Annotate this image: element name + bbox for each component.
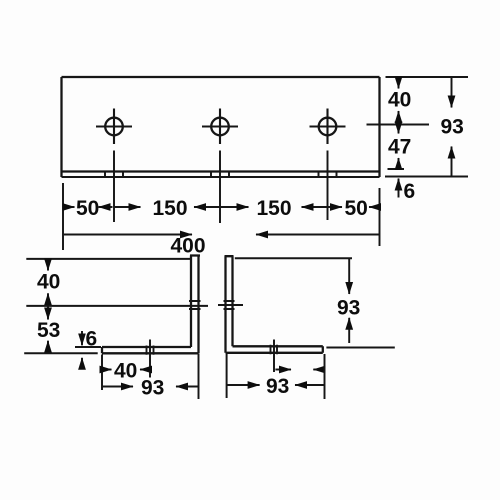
right side view horizontal flange	[226, 346, 323, 353]
dimension 53 (left side view) arrows	[47, 306, 49, 353]
dimension 93 vertical (right side view) label	[337, 297, 360, 320]
extension line top right (y=77)	[386, 76, 469, 78]
extension stub for 6 thickness (y=169.5)	[388, 168, 405, 170]
hole H1 centerline extension	[113, 151, 115, 223]
right side view extension line right (y=347.5)	[326, 347, 394, 349]
svg-text:6: 6	[404, 180, 416, 203]
svg-text:6: 6	[86, 328, 98, 351]
bracket front view face outline	[62, 77, 380, 177]
left side view vertical leg	[190, 256, 200, 354]
dimension 93 flange (left side view) arrows	[102, 386, 199, 388]
hole H1 crosshair	[96, 109, 132, 145]
svg-text:93: 93	[266, 375, 289, 398]
hole H1 edge ticks on edge strip	[105, 171, 123, 178]
dimension 40 flange (left side view) label	[114, 360, 137, 383]
svg-text:93: 93	[141, 377, 164, 400]
hole H1 circle	[105, 118, 123, 136]
right side view extension line top (y=258.2)	[235, 257, 352, 259]
dimension 400 arrows	[64, 234, 380, 236]
svg-text:40: 40	[114, 360, 137, 383]
left side view extension line top (y=259)	[26, 258, 190, 260]
dimension 40 (right stack) label	[388, 89, 411, 112]
dimension 50 left label	[76, 197, 99, 220]
right side view vertical leg	[225, 256, 234, 353]
hole H3 centerline extension	[327, 151, 329, 221]
hole H2 edge ticks on edge strip	[211, 171, 229, 178]
svg-text:150: 150	[257, 197, 292, 220]
extension stub for 6 (left side view)	[75, 346, 101, 348]
dimension 50 right label	[345, 197, 368, 220]
dimension 6 (right stack) arrow	[398, 179, 400, 198]
left side view hole lines on leg	[189, 301, 201, 309]
extension line leg left edge down (right side view)	[226, 354, 228, 398]
right side view hole centerline on flange	[273, 340, 275, 373]
hole H3 circle	[319, 118, 337, 136]
left side view hole ticks on flange	[147, 346, 154, 355]
left side view horizontal flange	[102, 347, 199, 353]
dimension 400 label	[171, 235, 206, 258]
hole H2 centerline extension	[219, 151, 221, 224]
dimension 40 (left side view) label	[37, 271, 60, 294]
extension line bottom right (y=176.5)	[385, 176, 468, 178]
bracket front view bottom flange edge strip	[62, 176, 380, 178]
left side view extension line hole center (y=306)	[26, 305, 208, 307]
dimension 93 (right overall) label	[441, 116, 464, 139]
dimension 93 flange (right side view) arrows	[227, 384, 325, 386]
right side view hole ticks on flange	[271, 345, 278, 355]
hole H3 edge ticks on edge strip	[319, 171, 337, 178]
svg-text:53: 53	[37, 319, 60, 342]
svg-text:40: 40	[388, 89, 411, 112]
dimension 150 first arrows	[114, 206, 220, 208]
dimension 47 (right stack) label	[388, 136, 411, 159]
dimension 40 (left side view) arrows	[47, 259, 49, 306]
dimension 93 flange (right side view) label	[266, 375, 289, 398]
extension line left end below bracket	[62, 183, 64, 250]
dimension 40 (right stack) arrows	[398, 77, 400, 125]
right side view hole center crossline (y=305)	[218, 304, 243, 306]
dimension 6 (right stack) label	[404, 180, 416, 203]
dimension 6 (left side view) label	[86, 328, 98, 351]
svg-text:400: 400	[171, 235, 206, 258]
dimension 40 flange (left side view) arrows	[102, 369, 150, 371]
dimension 6 (left side view) arrows	[81, 331, 83, 369]
extension line flange left end (left side view)	[101, 355, 103, 391]
dimension 50 left arrows	[63, 206, 113, 208]
extension line right end below bracket	[379, 188, 381, 246]
dimension 150 first label	[153, 197, 188, 220]
left side view extension line bottom (y=353.3)	[24, 352, 98, 354]
extension line flange right end down (right side view)	[324, 354, 326, 399]
dimension 93 flange (left side view) label	[141, 377, 164, 400]
dimension 150 second arrows	[220, 206, 329, 208]
svg-text:40: 40	[37, 271, 60, 294]
dimension 150 second label	[257, 197, 292, 220]
svg-text:47: 47	[388, 136, 411, 159]
dimension 53 (left side view) label	[37, 319, 60, 342]
right side view hole lines on leg	[224, 301, 235, 309]
svg-text:50: 50	[345, 197, 368, 220]
extension line hole centerline right (y=124.5)	[367, 124, 430, 126]
hole H2 crosshair	[202, 109, 238, 145]
dimension 93 vertical (right side view) arrows	[348, 258, 350, 343]
svg-text:93: 93	[441, 116, 464, 139]
svg-text:50: 50	[76, 197, 99, 220]
hole H3 crosshair	[310, 109, 346, 145]
dimension 47 (right stack) arrows	[398, 125, 400, 169]
left side view hole centerline on flange	[149, 340, 151, 378]
dimension 50 right arrows	[329, 206, 380, 208]
hole H2 circle	[211, 118, 229, 136]
dimension 93 (right overall) arrows	[451, 77, 453, 176]
svg-text:150: 150	[153, 197, 188, 220]
unlabelled flange offset arrows (right side view)	[275, 369, 324, 371]
extension line leg outer edge down (left side view)	[198, 353, 200, 399]
svg-text:93: 93	[337, 297, 360, 320]
